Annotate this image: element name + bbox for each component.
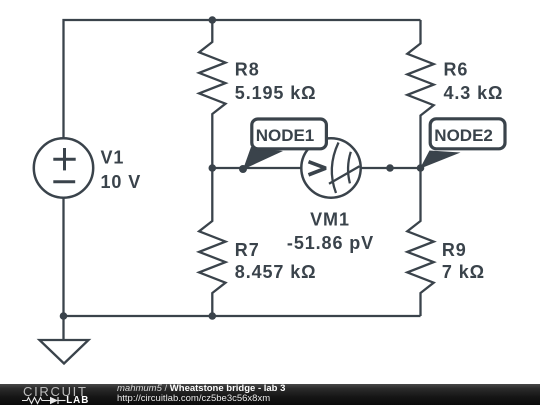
svg-text:R7: R7 <box>235 240 260 260</box>
svg-text:5.195 kΩ: 5.195 kΩ <box>235 83 317 103</box>
svg-text:VM1: VM1 <box>310 210 350 230</box>
junction dot top <box>209 16 217 24</box>
svg-text:4.3 kΩ: 4.3 kΩ <box>444 83 504 103</box>
svg-text:NODE1: NODE1 <box>256 126 315 145</box>
footer bar <box>0 384 540 405</box>
svg-text:R8: R8 <box>235 60 260 80</box>
wire bottom horizontal <box>64 315 421 317</box>
ground stem <box>62 316 64 340</box>
voltmeter dial arc right <box>348 152 351 184</box>
voltmeter needle <box>329 166 360 184</box>
voltmeter VM1 circle <box>301 138 360 197</box>
junction dot node1 left <box>209 164 217 172</box>
V1 plus sign <box>53 148 75 182</box>
node1 callout tail <box>243 147 283 170</box>
svg-text:R6: R6 <box>444 60 469 80</box>
footer title line <box>117 384 285 394</box>
junction dot node2 <box>417 164 425 172</box>
footer url line <box>117 394 270 404</box>
voltage source V1 circle <box>34 138 93 197</box>
svg-text:-51.86 pV: -51.86 pV <box>287 233 374 253</box>
wire left bottom vertical <box>62 198 64 316</box>
circuitlab logo wire glyph <box>22 396 68 405</box>
svg-text:NODE2: NODE2 <box>434 126 493 145</box>
resistor R8 <box>199 20 225 168</box>
resistor R9 <box>407 168 433 316</box>
svg-text:7 kΩ: 7 kΩ <box>442 262 485 282</box>
svg-text:R9: R9 <box>442 240 467 260</box>
node NODE2 callout box <box>430 119 505 149</box>
node NODE1 callout box <box>252 119 327 149</box>
node2 callout tail <box>420 151 461 169</box>
ground triangle <box>40 340 89 364</box>
junction dot bottom R7 <box>209 312 217 320</box>
voltmeter dial arc left <box>332 143 339 194</box>
junction dot node1 anchor <box>239 165 247 173</box>
resistor R7 <box>199 168 225 316</box>
resistor R6 <box>407 20 433 168</box>
svg-text:V1: V1 <box>101 148 125 168</box>
voltmeter chevron <box>309 162 326 175</box>
circuitlab logo text <box>23 386 88 398</box>
V1 minus sign <box>53 180 75 183</box>
svg-text:10 V: 10 V <box>101 172 142 192</box>
svg-text:8.457 kΩ: 8.457 kΩ <box>235 262 317 282</box>
junction dot bottom left <box>60 312 68 320</box>
wire middle right (voltmeter to node2) <box>361 167 421 169</box>
junction dot voltmeter right <box>386 164 394 172</box>
wire middle left (node1 to voltmeter) <box>212 167 301 169</box>
wire top horizontal <box>64 20 421 138</box>
